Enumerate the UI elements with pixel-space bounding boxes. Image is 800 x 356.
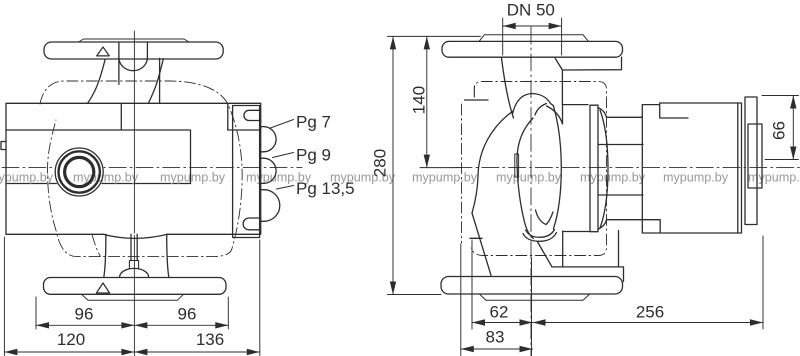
nameplate strip (515, 154, 519, 177)
volute-ring junction bottom (563, 231, 590, 233)
svg-text:62: 62 (490, 303, 509, 322)
flange bottom (left view) (44, 278, 227, 295)
svg-text:mypump.by: mypump.by (663, 171, 729, 185)
motor box (642, 103, 741, 233)
phantom bracket step (465, 99, 489, 101)
volute cup inner (526, 230, 555, 238)
body seam right top (227, 103, 229, 130)
svg-text:120: 120 (57, 330, 85, 349)
centerline vertical right view (530, 27, 532, 356)
flange bracket right (555, 57, 621, 70)
svg-text:DN 50: DN 50 (507, 1, 555, 20)
volute right wall upper (547, 105, 563, 124)
pedestal bottom (552, 231, 624, 282)
gland slot top (244, 110, 261, 120)
impeller bow right (553, 106, 561, 229)
svg-text:136: 136 (196, 330, 224, 349)
clip left edge (1, 142, 6, 150)
phantom insulation box (right view) (471, 82, 607, 256)
gland bump Pg7 (261, 127, 276, 152)
direction triangle top (97, 47, 110, 56)
dim 140 (410, 36, 461, 167)
svg-text:96: 96 (178, 305, 197, 324)
dim 66 (762, 96, 799, 160)
dim 120 136 row (4, 237, 259, 356)
terminal plate (748, 124, 762, 188)
centerline horizontal left view (2, 167, 302, 169)
centerline horizontal right view (455, 167, 800, 169)
drop line right bottom (167, 234, 169, 276)
svg-text:140: 140 (410, 86, 429, 114)
svg-text:Pg 9: Pg 9 (296, 146, 331, 165)
counter-flange bottom (right view) (480, 294, 590, 300)
svg-text:mypump.by: mypump.by (73, 171, 139, 185)
svg-text:66: 66 (770, 121, 789, 140)
dim DN 50 (503, 1, 562, 56)
svg-text:96: 96 (75, 305, 94, 324)
discharge pipe edge right view (561, 70, 563, 105)
flange top (left view) (44, 42, 223, 59)
dim 83 row (461, 244, 533, 356)
motor body box (left view) (6, 103, 261, 234)
cylinder bottom contour (598, 220, 660, 233)
svg-text:Pg 13,5: Pg 13,5 (296, 179, 355, 198)
volute-ring junction top (563, 104, 589, 106)
phantom pump housing contour (left view) (40, 81, 242, 257)
dim 96 96 row (36, 297, 228, 329)
counter-flange top (left view) (79, 39, 190, 42)
leader Pg9 (273, 153, 294, 158)
svg-text:mypump.by: mypump.by (412, 171, 478, 185)
svg-text:mypump.by: mypump.by (496, 171, 562, 185)
terminal box band (6, 130, 191, 184)
shaft cap box (129, 261, 138, 269)
foot left slant (472, 213, 491, 275)
ring flange (590, 105, 598, 232)
hub curve bottom left (536, 210, 547, 225)
drop line left bottom (104, 234, 106, 276)
casing curve left top (88, 59, 106, 103)
smile seam under body (103, 234, 168, 238)
pedestal left edge (562, 231, 564, 267)
inner spiral left (517, 118, 534, 239)
svg-text:256: 256 (636, 303, 664, 322)
neck U tab (left view) (119, 42, 147, 71)
leader Pg13.5 (277, 186, 294, 190)
foot step tick (470, 237, 482, 239)
cable gland block (233, 106, 260, 238)
centerline vertical left view (133, 31, 135, 356)
casing curve right top (148, 59, 163, 104)
svg-text:mypump.by: mypump.by (0, 171, 54, 185)
dim 280 (371, 36, 481, 294)
svg-text:280: 280 (371, 149, 390, 177)
svg-text:mypump.by: mypump.by (160, 171, 226, 185)
cylinder top contour (598, 103, 688, 118)
pedestal front slant (537, 241, 552, 267)
counter-flange bottom (left view) (82, 294, 184, 300)
body seam right horizontal (228, 129, 261, 131)
svg-text:Pg 7: Pg 7 (296, 113, 331, 132)
neck wall left stub (118, 58, 120, 85)
phantom inner step arc (left view) (92, 235, 101, 257)
hub curve top (535, 104, 547, 116)
svg-text:mypump.by: mypump.by (748, 171, 800, 185)
terminal cover (745, 97, 757, 225)
hub curve bottom right (546, 212, 553, 225)
volute cap (513, 94, 554, 115)
watermark row mypump.by (0, 171, 800, 185)
speed selector knob rings (55, 148, 103, 196)
neck left line (502, 58, 514, 118)
gland bump Pg9 (261, 158, 276, 183)
gland bump Pg13.5 (261, 190, 280, 222)
shaft cartridge (599, 145, 644, 196)
svg-text:83: 83 (486, 328, 505, 347)
motor face vertical (641, 117, 643, 220)
shaft lines bottom (131, 234, 137, 260)
leader Pg7 (271, 120, 294, 129)
flange (right view) (442, 41, 623, 57)
volute outer sweep (472, 111, 513, 213)
flange bottom (right view) (441, 277, 623, 295)
motor seam right (737, 103, 739, 233)
gland slot bottom (243, 218, 261, 230)
bearing arc (600, 110, 608, 228)
body bottom gap mask (105, 233, 167, 235)
phantom left vertical (461, 104, 463, 243)
bell dome bottom (120, 268, 149, 277)
volute cup outer (523, 233, 557, 242)
phantom stub (473, 86, 475, 100)
knob mask disc (54, 147, 104, 197)
dim 62 256 row (472, 236, 763, 356)
body seam left top (120, 103, 122, 130)
counter-flange top (right view) (479, 35, 589, 42)
discharge edge vertical (159, 58, 161, 103)
direction triangle bottom (96, 283, 109, 293)
